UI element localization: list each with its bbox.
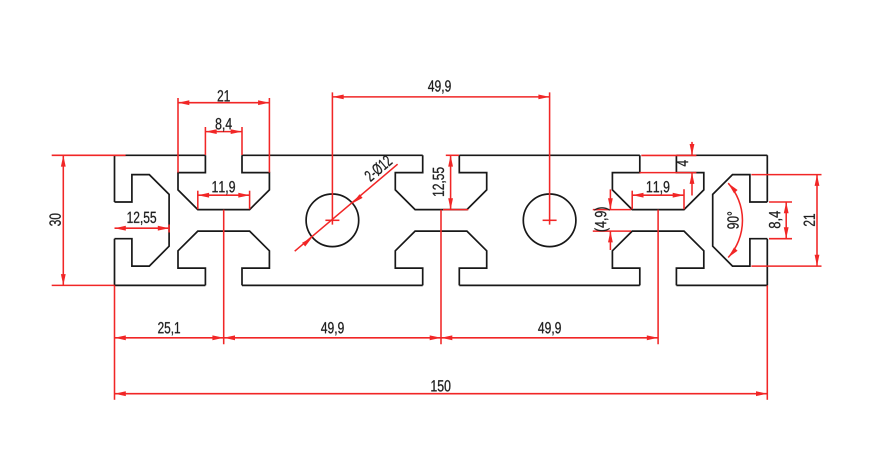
top T-slot cavity 3 (center 124.9) [612, 155, 703, 209]
top T-slot cavity 2 (center 75) [395, 155, 486, 209]
dimension 25,1 / 49,9 / 49,9 chain: dimension line [115, 337, 659, 339]
hole H2 center cross [543, 219, 557, 221]
bottom chain dimensions: slot 3 center line [657, 210, 659, 345]
dimension 49,9: center/extension line hole H2 [549, 92, 551, 224]
dimension 4: lower arrow segment [691, 173, 693, 196]
text 2-O12 (hole callout, rotated) [363, 154, 393, 182]
leader 2-O12: leader line through hole H1 with arrows at rim [295, 164, 398, 251]
dimension 4: upper arrow segment [691, 142, 693, 155]
hole H2 diameter 12 [523, 194, 576, 247]
text 12,55 (left slot) [128, 212, 157, 225]
dimension 21 right (right slot cavity height): extension lines [751, 174, 821, 176]
chain arrows [115, 335, 126, 340]
bottom T-slot cavity 2 [395, 231, 486, 285]
text 21 (top) [218, 90, 230, 101]
dimension 11,9 slot1: dimension line with arrows [198, 194, 250, 196]
dimension (4,9) web thickness: extension lines [593, 209, 631, 211]
text 30 (rotated) [49, 214, 60, 226]
dimension 8,4: dimension line with arrows [205, 131, 242, 133]
text 90 degrees (rotated) [727, 212, 738, 229]
dimension 8,4 right (right slot opening): extension lines [769, 201, 792, 203]
left end T-slot cavity [115, 175, 170, 267]
bottom chain dimensions: slot 1 center line [223, 210, 225, 345]
text 21 right (rotated) [804, 214, 815, 226]
bottom chain dimensions: left extension line (profile left edge) [114, 285, 116, 399]
dimension 90 degrees: arc with arrows [728, 183, 742, 257]
text 11,9 (slot 1) [212, 181, 234, 194]
dimension 12,55 (left slot depth): extension line [168, 225, 170, 233]
hole H1 center cross [325, 219, 339, 221]
text 12,55 vertical (rotated) [433, 167, 446, 196]
dimension 11,9 slot3: dimension line with arrows [632, 194, 684, 196]
profile outer contour (150x30 extrusion, top/bottom/left/right edges with slot openings) [115, 155, 768, 285]
bottom chain dimensions: slot 2 center line [440, 210, 442, 345]
dimension 12,55: dimension line with arrows [115, 227, 170, 229]
text 49,9 (bottom 2) [538, 322, 561, 335]
dimension 30 (left overall height): extension lines [52, 154, 126, 156]
dimension 150: dimension line with arrows [115, 393, 768, 395]
dimension 21 (top slot cavity width): extension lines [177, 98, 179, 173]
text 4 (rotated) [677, 160, 688, 166]
dimension 12,55 vertical: dimension line with arrows [450, 155, 452, 209]
dimension 49,9 (hole spacing): center/extension line hole H1 [331, 92, 333, 224]
text (4,9) (rotated) [594, 207, 609, 231]
dimension 11,9 (slot 1 bottom width): extension lines [197, 191, 199, 210]
text 11,9 (slot 3) [647, 181, 669, 194]
dimension 21: dimension line with arrows [178, 102, 269, 104]
dimension 12,55 vertical (slot 2 depth): extension lines [446, 154, 459, 156]
text 8,4 right (rotated) [769, 211, 782, 228]
hole H1 diameter 12 [306, 194, 359, 247]
dimension 150: right extension line (profile right edge) [766, 285, 768, 399]
text 8,4 (top) [216, 118, 232, 131]
dimension 11,9 (slot 3 bottom width): extension lines [631, 191, 633, 210]
bottom T-slot cavity 1 [178, 231, 269, 285]
dimension 4 (slot lip depth): extension lines [641, 154, 696, 156]
text 49,9 (top) [428, 80, 451, 93]
right end T-slot cavity [713, 175, 768, 267]
dimension (4,9): upper arrow segment [609, 189, 611, 209]
dimension 30: dimension line with arrows [62, 155, 64, 285]
text 49,9 (bottom 1) [321, 322, 344, 335]
bottom T-slot cavity 3 [612, 231, 703, 285]
dimension (4,9): lower arrow segment [609, 231, 611, 250]
dimension 8,4 right: dimension line with arrows [785, 202, 787, 239]
dimension 21 right: dimension line with arrows [816, 175, 818, 267]
dimension 8,4 (top slot opening): extension lines [204, 127, 206, 155]
text 150 (bottom) [431, 380, 450, 391]
top T-slot cavity 1 (center 25.1) [178, 155, 269, 209]
text 25,1 (bottom) [158, 322, 180, 335]
dimension 49,9: dimension line with arrows [332, 96, 549, 98]
